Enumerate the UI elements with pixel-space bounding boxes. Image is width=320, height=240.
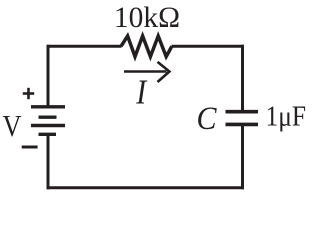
wire right (capacitor to bottom corner) <box>241 124 244 189</box>
wire bottom segment <box>47 186 244 189</box>
capacitor C plate bottom <box>226 123 259 127</box>
svg-text:I: I <box>135 73 148 112</box>
wire top-left segment <box>47 45 122 48</box>
wire top-right segment <box>172 45 245 48</box>
capacitor C plate top <box>226 110 259 114</box>
battery V plate long top (+) <box>31 105 65 108</box>
wire right (top corner to capacitor) <box>241 45 244 112</box>
svg-text:V: V <box>3 108 23 143</box>
svg-text:C: C <box>197 101 218 137</box>
battery V plate long <box>31 124 65 127</box>
battery plus symbol <box>23 88 34 99</box>
resistor R 10kΩ zigzag <box>121 36 172 57</box>
svg-text:1μF: 1μF <box>266 101 307 132</box>
battery V plate short <box>39 115 57 118</box>
wire left (battery to bottom corner) <box>47 134 50 189</box>
battery V plate short bottom (-) <box>39 133 57 136</box>
wire left (top corner to battery) <box>47 45 50 107</box>
battery minus symbol <box>22 146 38 149</box>
current arrow <box>124 62 169 82</box>
svg-text:10kΩ: 10kΩ <box>114 2 180 34</box>
